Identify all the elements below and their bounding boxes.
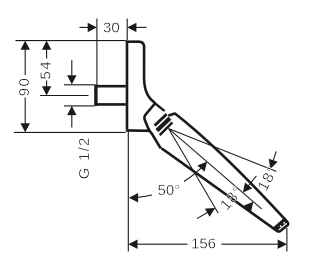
upper 18 deg arrow B on L2 (243, 176, 257, 193)
pipe stub (96, 86, 126, 104)
G 1/2 thread outline (64, 85, 94, 106)
fan line L2 (axis) (169, 129, 262, 209)
svg-text:90: 90 (16, 77, 33, 97)
holder body: cone end face + chin + wrap (144, 104, 160, 149)
svg-text:30: 30 (103, 20, 120, 37)
handle back face ring (160, 122, 173, 135)
lower 18 deg arrow C on L2 (244, 202, 254, 212)
fan line L1 (+ upper position) (169, 129, 277, 172)
G 1/2 lower arrow (67, 106, 76, 128)
upper 18 deg leader+arrow E on L1 (269, 151, 278, 169)
50 deg arrows (129, 193, 138, 202)
156 right extension line (286, 228, 288, 252)
top reference line (16, 40, 126, 42)
dim 30 arrows (80, 23, 147, 32)
pipe centerline (40, 95, 89, 97)
G 1/2 upper arrow (67, 60, 76, 84)
dim 30: right extension line (126, 19, 128, 41)
dimension 54 line (42, 41, 51, 96)
50 deg arc (138, 195, 152, 197)
156 left extension line (127, 131, 129, 252)
holder body: left edge (126, 40, 129, 129)
svg-text:G 1/2: G 1/2 (76, 137, 93, 180)
collar ring A (thick) (155, 114, 167, 125)
fan line L3 (lower position) (169, 129, 219, 214)
holder body: top edge + right cone (126, 42, 155, 103)
svg-text:50°: 50° (158, 182, 181, 199)
hand shower outline (161, 114, 289, 232)
dim 156 (128, 240, 287, 249)
lower 18 deg arrow D on L3 + tail (197, 208, 215, 219)
svg-text:54: 54 (37, 60, 54, 80)
collar ring B (thick) (157, 118, 170, 130)
bottom reference line (90 dim) (14, 131, 126, 133)
dim 30: left extension line (96, 19, 98, 85)
handle tip cap (273, 217, 288, 231)
holder body: bottom edge (126, 129, 150, 132)
dimension 90 line (21, 41, 30, 133)
holder body: neck top line (155, 103, 165, 111)
svg-text:156: 156 (191, 236, 216, 253)
flange thick block (94, 84, 97, 106)
